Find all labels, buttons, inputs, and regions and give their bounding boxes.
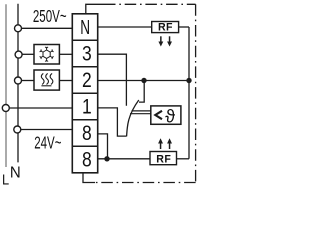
svg-text:2: 2 xyxy=(82,70,92,93)
svg-text:8: 8 xyxy=(82,123,92,146)
svg-text:N: N xyxy=(10,164,21,181)
svg-text:3: 3 xyxy=(82,43,92,66)
svg-text:8: 8 xyxy=(82,149,92,172)
svg-text:L: L xyxy=(2,172,9,188)
svg-text:24V~: 24V~ xyxy=(34,134,61,153)
svg-text:RF: RF xyxy=(158,22,173,34)
svg-text:N: N xyxy=(80,17,90,39)
svg-text:250V~: 250V~ xyxy=(33,8,67,27)
svg-text:1: 1 xyxy=(82,96,92,119)
svg-text:RF: RF xyxy=(156,153,171,165)
svg-text:ϑ: ϑ xyxy=(165,106,175,126)
